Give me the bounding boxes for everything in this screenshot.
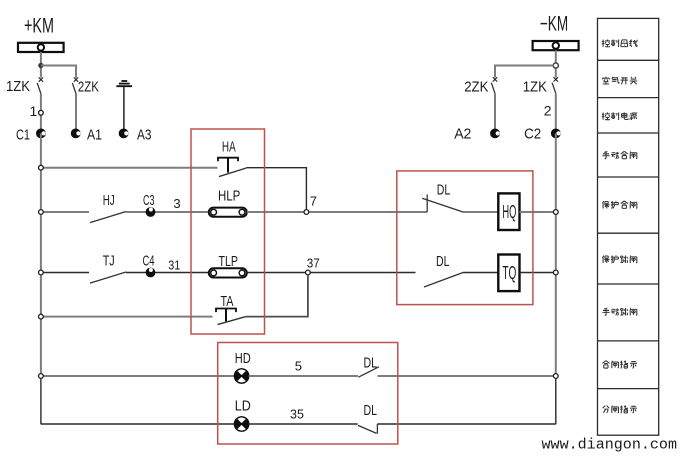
svg-text:+KM: +KM bbox=[24, 15, 54, 38]
svg-text:2: 2 bbox=[544, 103, 552, 119]
svg-text:3: 3 bbox=[173, 196, 180, 211]
label row2 kong-qi-kai-guan bbox=[602, 77, 637, 85]
wire LD row left bbox=[41, 423, 235, 425]
contact HJ bbox=[90, 212, 126, 223]
node HD tap bbox=[39, 374, 44, 379]
svg-text:C2: C2 bbox=[524, 126, 541, 143]
breaker 2ZK (right) bbox=[491, 77, 497, 133]
node 1 bbox=[39, 110, 44, 115]
push button HA bbox=[218, 158, 246, 177]
contact DL (NO) bbox=[424, 273, 463, 288]
wire junction to 2ZK branch bbox=[495, 66, 553, 78]
breaker 1ZK (left) bbox=[37, 77, 43, 133]
push button TA bbox=[216, 309, 246, 325]
wire TJ to link bbox=[126, 272, 209, 274]
wire DL to right bus bbox=[378, 375, 556, 377]
svg-text:DL: DL bbox=[437, 181, 451, 198]
wire junction to 2ZK branch bbox=[41, 66, 76, 78]
label row7 shou-dong-tiao-zha bbox=[602, 308, 636, 315]
wire TA right + rise to node 37 bbox=[246, 275, 308, 317]
label row4 shou-dong-he-zha bbox=[602, 151, 636, 159]
group box breaker aux/coils bbox=[397, 171, 533, 305]
terminal A3 bbox=[119, 129, 129, 139]
svg-text:5: 5 bbox=[295, 359, 302, 374]
terminal C3 bbox=[146, 207, 156, 217]
wire DL to HQ bbox=[463, 211, 498, 213]
busbar -KM bbox=[533, 41, 579, 50]
terminal A1 bbox=[71, 129, 81, 139]
wire link to DL bbox=[247, 272, 416, 274]
coil HQ bbox=[498, 193, 519, 230]
wire HA row right + drop to node 7 bbox=[246, 168, 306, 210]
svg-text:TQ: TQ bbox=[502, 263, 516, 283]
contact TJ bbox=[90, 272, 126, 283]
node HQ right tap bbox=[553, 210, 558, 215]
svg-text:C4: C4 bbox=[143, 253, 155, 270]
svg-text:31: 31 bbox=[168, 257, 180, 272]
breaker 2ZK (left) bbox=[72, 77, 78, 133]
label row3 kong-zhi-dian-yuan bbox=[602, 112, 638, 120]
svg-text:7: 7 bbox=[310, 194, 317, 209]
wire HQ to right bus bbox=[520, 211, 556, 213]
svg-text:A3: A3 bbox=[137, 126, 152, 143]
node 7 bbox=[304, 210, 309, 215]
link TLP bbox=[209, 268, 247, 277]
svg-text:HA: HA bbox=[222, 138, 236, 155]
junction dot bbox=[38, 63, 43, 68]
lamp LD bbox=[234, 417, 248, 431]
node HD right tap bbox=[553, 374, 558, 379]
group box manual buttons/links bbox=[191, 129, 265, 334]
wire HJ to link bbox=[126, 211, 209, 213]
wire bar to junction bbox=[555, 50, 557, 77]
svg-text:37: 37 bbox=[307, 256, 320, 271]
node TQ right tap bbox=[553, 270, 558, 275]
wire right bus lower bbox=[555, 376, 557, 424]
svg-text:2ZK: 2ZK bbox=[464, 78, 488, 95]
node HA tap bbox=[39, 165, 44, 170]
svg-text:HQ: HQ bbox=[502, 202, 516, 222]
contact DL (NO) bbox=[358, 367, 379, 377]
label row8 he-zha-zhi-shi bbox=[602, 361, 637, 369]
svg-text:35: 35 bbox=[290, 406, 304, 421]
junction node (open) bbox=[553, 63, 558, 68]
svg-text:HD: HD bbox=[235, 350, 251, 367]
svg-text:1ZK: 1ZK bbox=[6, 78, 30, 95]
svg-text:TA: TA bbox=[221, 293, 234, 310]
wire link to DL bbox=[247, 211, 427, 213]
svg-text:LD: LD bbox=[235, 397, 251, 414]
svg-text:TJ: TJ bbox=[103, 253, 115, 270]
svg-text:C1: C1 bbox=[16, 126, 30, 143]
breaker 1ZK (right) bbox=[552, 77, 558, 133]
terminal C1 bbox=[36, 129, 46, 139]
node TLP tap bbox=[39, 270, 44, 275]
label row5 bao-hu-he-zha bbox=[602, 201, 636, 209]
terminal A2 bbox=[490, 129, 500, 139]
label row1 kong-zhi-mu-xian bbox=[602, 39, 638, 46]
wire lamp to DL bbox=[249, 423, 358, 425]
coil TQ bbox=[498, 255, 519, 292]
link HLP bbox=[209, 208, 247, 217]
svg-text:1: 1 bbox=[30, 103, 38, 119]
wire DL to TQ bbox=[463, 272, 498, 274]
terminal C4 bbox=[146, 268, 156, 278]
label row9 fen-zha-zhi-shi bbox=[603, 405, 637, 413]
wire TLP row left bbox=[41, 272, 89, 274]
busbar +KM bbox=[18, 43, 64, 52]
group box lamps bbox=[218, 343, 398, 445]
wire lamp to DL bbox=[249, 375, 358, 377]
wire left bus bbox=[40, 133, 42, 376]
svg-text:DL: DL bbox=[436, 253, 450, 270]
ground symbol bbox=[116, 81, 132, 133]
svg-text:www.diangon.com: www.diangon.com bbox=[542, 437, 678, 453]
wire HD row left bbox=[41, 375, 235, 377]
svg-text:DL: DL bbox=[364, 355, 378, 372]
contact DL (NC) bbox=[358, 424, 377, 434]
label row6 bao-hu-tiao-zha bbox=[602, 255, 636, 263]
svg-text:TLP: TLP bbox=[219, 253, 239, 270]
lamp HD bbox=[234, 369, 248, 383]
svg-text:−KM: −KM bbox=[540, 12, 568, 35]
wire TA row left bbox=[41, 316, 213, 318]
terminal C2 bbox=[551, 129, 561, 139]
svg-text:DL: DL bbox=[364, 402, 378, 419]
node TA tap bbox=[39, 314, 44, 319]
wire bar to junction bbox=[40, 52, 42, 78]
svg-text:HJ: HJ bbox=[103, 192, 115, 209]
wire DL to right bus bbox=[377, 423, 555, 425]
node 37 bbox=[306, 270, 311, 275]
svg-text:C3: C3 bbox=[143, 192, 155, 209]
wire left bus lower bbox=[40, 376, 42, 424]
svg-text:1ZK: 1ZK bbox=[523, 78, 547, 95]
svg-text:A1: A1 bbox=[87, 126, 102, 143]
wire right bus bbox=[555, 133, 557, 376]
svg-text:HLP: HLP bbox=[218, 188, 240, 205]
wire HLP row left bbox=[41, 211, 89, 213]
svg-text:A2: A2 bbox=[454, 126, 471, 143]
svg-text:2ZK: 2ZK bbox=[78, 79, 99, 96]
node HLP tap bbox=[39, 210, 44, 215]
contact DL (NC, breaker aux) bbox=[422, 195, 463, 213]
wire HA row left bbox=[41, 167, 218, 169]
wire TQ to right bus bbox=[520, 272, 556, 274]
